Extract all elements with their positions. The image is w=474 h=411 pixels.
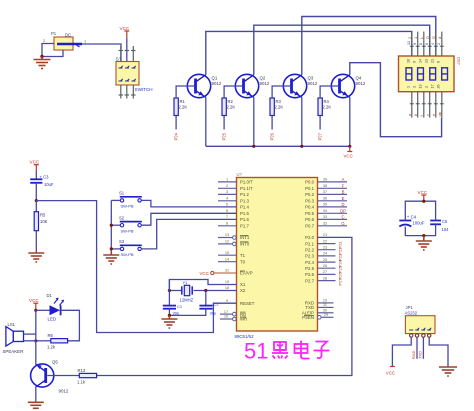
svg-text:R5: R5 [40,213,46,218]
switch S? body [116,62,139,86]
junction dot VCC rail [422,200,425,203]
junction dot common rail S2 [110,224,113,227]
MCU right pin names P0 [305,180,314,229]
svg-text:21: 21 [431,59,435,63]
svg-text:P1.5: P1.5 [240,211,249,216]
svg-text:P1.1/T: P1.1/T [240,186,253,191]
wire R1 to Q1 base [176,86,194,98]
svg-text:G: G [341,221,344,226]
wire Q4 emitter to VCC bus [349,97,351,146]
svg-text:P1.2: P1.2 [240,192,249,197]
svg-text:T0: T0 [240,259,246,264]
svg-text:P2.0: P2.0 [305,235,314,240]
display digit 1 [406,68,412,80]
title 51 black electronics [244,339,330,364]
resistor R6 [47,333,68,350]
svg-text:R6: R6 [48,333,54,338]
display inner top pin name row [407,59,441,63]
svg-text:5: 5 [226,203,228,207]
svg-text:LED: LED [48,317,57,322]
wire X2 to crystal [194,290,237,292]
MCU left pin WR bubble [220,317,236,321]
svg-text:P0.6: P0.6 [305,217,314,222]
svg-text:D: D [341,202,344,207]
MCU left pin RD bubble [220,312,236,316]
wire R3 bottom to net label [271,116,273,130]
MCU pin PSEN bubble [318,316,334,320]
wire VCC node to LED anode [36,309,50,311]
svg-text:C: C [341,214,344,219]
svg-text:P23: P23 [338,253,343,261]
wire Q1 collector to display pin1 [206,31,412,74]
MCU right pin stubs P2.1-P2.7 [318,244,336,281]
wire Q2 emitter to VCC bus [253,97,255,146]
svg-text:D: D [425,36,430,39]
junction dot reset node [35,199,38,202]
svg-text:SWITCH: SWITCH [135,87,153,92]
display digit 2 [418,68,424,80]
switch S? bottom pins [119,85,136,99]
svg-text:P0.1: P0.1 [305,186,314,191]
svg-text:12MHZ: 12MHZ [180,298,194,303]
svg-text:P2.1: P2.1 [305,241,314,246]
svg-text:G: G [431,36,436,39]
wire Q4 collector to display bottom pin6 [350,63,442,137]
svg-text:9: 9 [412,61,416,63]
MCU right pin numbers P2 [323,233,327,280]
junction dot bus Q3 [300,145,303,148]
crystal Y1 12MHZ [180,280,194,303]
svg-text:P1.3: P1.3 [240,199,249,204]
MCU left pin stubs P1.0-P1.7 [218,182,237,262]
transistor Q2 9012 [235,74,270,97]
junction dot speaker node [34,339,37,342]
junction dot ground rail [422,234,425,237]
svg-text:23: 23 [424,59,428,63]
speaker LS1 [3,322,24,354]
wire Q2 collector to display pin4 [254,25,430,75]
svg-text:Q3: Q3 [308,76,314,81]
svg-text:SW-PB: SW-PB [121,204,134,209]
MCU left pin INT1 bubble [218,236,236,240]
svg-text:D1: D1 [47,293,53,298]
svg-text:S?: S? [116,56,122,62]
svg-text:c: c [425,114,430,116]
svg-text:4: 4 [431,43,435,45]
power VCC above switch [120,26,130,38]
wire JP1 pin3 TXD [422,337,424,359]
svg-text:18: 18 [225,286,229,290]
power VCC speaker circuit [29,298,39,310]
wire buttons common rail [111,200,120,252]
svg-text:P27: P27 [317,132,322,140]
wire VCC to switch middle pin [126,38,128,62]
junction dot common rail S3 [110,247,113,250]
svg-text:9: 9 [413,43,417,45]
power VCC filter block [418,190,428,201]
svg-text:A: A [342,177,345,182]
ground symbol below R5 [28,253,44,262]
svg-text:P1.7: P1.7 [240,224,249,229]
ground symbol filter block [416,236,432,250]
svg-text:S2: S2 [119,215,125,220]
svg-text:R4: R4 [324,99,330,104]
resistor R1 2.2K [174,98,187,116]
svg-text:RESET: RESET [240,301,255,306]
transistor Q4 9012 [331,74,366,97]
svg-text:dp: dp [437,111,442,116]
MCU bottom right pin stubs RXD TXD ALE [318,303,334,313]
svg-text:30p: 30p [210,311,217,316]
svg-text:P25: P25 [338,265,343,273]
wire R2 bottom to net label [223,116,225,130]
svg-text:35: 35 [323,203,327,207]
svg-text:VCC: VCC [29,298,39,303]
svg-text:32: 32 [323,222,327,226]
svg-text:1.2k: 1.2k [47,345,56,350]
svg-text:P27: P27 [338,278,343,286]
svg-text:Q1: Q1 [212,76,218,81]
svg-text:2: 2 [437,43,441,45]
svg-text:16: 16 [407,59,411,63]
wire S1 to P1.4 [141,200,236,207]
wire LED cathode to R6 [61,310,80,341]
svg-text:26: 26 [323,264,327,268]
resistor R13 [77,368,97,385]
MCU pin name overlines [240,236,249,318]
svg-text:VCC: VCC [386,371,395,376]
svg-text:6: 6 [437,61,441,63]
svg-text:6: 6 [226,209,228,213]
wire VCC to C3 [35,171,37,179]
svg-text:+ C4: + C4 [407,214,417,219]
wire R3 to Q3 base [272,86,290,98]
svg-text:Q4: Q4 [356,76,362,81]
svg-text:25: 25 [323,258,327,262]
svg-text:P0.2: P0.2 [305,192,314,197]
wire Q3 emitter to VCC bus [301,97,303,146]
transistor Q1 9012 [187,74,222,97]
svg-text:13: 13 [419,85,423,89]
svg-text:X2: X2 [240,288,246,293]
junction dot crystal right [204,289,207,292]
svg-text:S1: S1 [119,191,125,196]
wire C1 C2 ground rail [169,309,205,316]
capacitor C1 30p [163,304,183,316]
svg-text:P1.6: P1.6 [240,217,249,222]
hanzi hei [272,342,288,359]
wire VCC node down to Q5 collector [35,310,37,364]
wire Q3 collector to display pin5 [302,17,436,75]
wire R2 to Q2 base [224,86,242,98]
svg-text:14: 14 [225,257,229,261]
svg-text:U?: U? [237,172,243,177]
svg-text:23: 23 [323,245,327,249]
svg-text:P21: P21 [338,241,343,249]
svg-text:P0.5: P0.5 [305,211,314,216]
ground symbol below JP1 pin4 [439,367,457,376]
svg-text:9012: 9012 [260,81,270,86]
svg-text:12: 12 [225,240,229,244]
svg-text:24: 24 [323,252,327,256]
svg-text:JP1: JP1 [406,305,414,310]
MCU U? 89C51/52 body [237,178,318,332]
wire R4 bottom to net label [319,116,321,130]
wire JP1 pin4 to ground [429,337,448,366]
display DS1 4-digit 7-segment body [399,56,455,92]
display bottom pins [412,92,442,118]
wire R6 to speaker node [36,340,51,342]
svg-text:P2.3: P2.3 [305,254,314,259]
svg-text:2.2K: 2.2K [179,105,188,110]
svg-text:P24: P24 [173,132,178,140]
hanzi zi [314,342,330,359]
pushbutton S1 SW-PB [119,191,142,209]
svg-text:DS?: DS? [457,57,462,66]
svg-text:DP: DP [340,208,346,213]
power VCC at EA/VP [200,271,214,276]
svg-text:36: 36 [323,197,327,201]
svg-text:P0.4: P0.4 [305,205,314,210]
ground symbol below Q5 [28,402,44,408]
capacitor C4 100uF [399,214,425,226]
svg-text:LS1: LS1 [8,322,16,327]
svg-text:9012: 9012 [356,81,366,86]
svg-text:21: 21 [323,233,327,237]
wire S2 to P1.5 [141,213,236,225]
MCU bottom right pin names [302,301,314,320]
svg-text:EA/VP: EA/VP [240,271,253,276]
svg-text:6: 6 [425,43,429,45]
wire R4 to Q4 base [320,86,338,98]
wire crystal right node down to C2 [205,291,207,306]
svg-text:P2.6: P2.6 [305,272,314,277]
svg-text:P25: P25 [221,132,226,140]
svg-text:SPEAKER: SPEAKER [3,349,24,354]
MCU left pin numbers [224,178,229,319]
svg-text:10: 10 [323,299,327,303]
svg-text:B: B [342,189,345,194]
display digit 4 [442,68,448,80]
svg-text:C5: C5 [442,219,448,224]
pushbutton S2 SW-PB [119,215,142,233]
svg-text:14: 14 [419,59,423,63]
display top pins [412,32,442,56]
svg-text:4: 4 [226,197,228,201]
svg-text:9012: 9012 [59,389,69,394]
wire reset node to RESET pin [36,201,236,333]
svg-text:2.2K: 2.2K [227,105,236,110]
wire reset node to R5 [35,201,37,212]
svg-text:P2.7: P2.7 [305,278,314,283]
svg-text:17: 17 [224,310,228,314]
svg-text:17: 17 [431,85,435,89]
display top pin tick marks [410,45,444,47]
junction dot bus VCC tap [348,145,351,148]
resistor R2 2.2K [222,98,235,116]
svg-text:9012: 9012 [212,81,222,86]
wire X1 loop [169,280,236,291]
MCU left pin INT0 bubble [218,242,236,246]
wire R1 bottom to net label [175,116,177,130]
power VCC below JP1 pin1 [386,367,395,376]
svg-text:9: 9 [226,299,228,303]
svg-text:P2.4: P2.4 [305,260,314,265]
power VCC reset circuit [30,160,40,172]
svg-text:+ C3: + C3 [40,175,50,180]
svg-text:R2: R2 [228,99,234,104]
overline PSEN [304,314,314,316]
MCU right pin stubs P0.0-P0.7 [318,182,348,226]
svg-text:WR: WR [240,317,247,322]
JP1 pin circles [410,334,431,337]
segment net labels A-G [340,177,346,226]
svg-text:P1.4: P1.4 [240,205,249,210]
svg-text:1: 1 [407,86,411,88]
LED D1 [47,293,65,322]
wire filter cap bottom rail [405,224,435,235]
svg-text:E: E [342,196,345,201]
svg-text:7: 7 [226,215,228,219]
resistor R3 2.2K [270,98,283,116]
svg-text:10K: 10K [40,219,48,224]
ground symbol crystal [161,315,177,328]
svg-text:12: 12 [407,41,411,45]
switch S? top pins [119,46,136,62]
wire P1 pin2 to ground [42,44,54,57]
wire Q1 emitter to VCC bus [205,97,207,146]
wire Q5 base to R13 [47,375,79,377]
wire P2.0 to beeper transistor R13 [97,237,352,375]
svg-text:2.2K: 2.2K [275,105,284,110]
wire C3 to reset node [35,183,37,201]
svg-text:VCC: VCC [30,160,40,165]
svg-text:100uF: 100uF [413,220,425,225]
svg-text:R3: R3 [276,99,282,104]
switch inner contact glyphs [119,66,136,81]
junction dot C1 ground [168,314,171,317]
svg-text:TXD: TXD [418,351,423,359]
svg-text:P0.3: P0.3 [305,199,314,204]
svg-text:2: 2 [226,184,228,188]
wire VCC to EA/VP pin 31 [214,272,237,274]
wire P1 pin1 to switch [82,44,121,62]
svg-text:28: 28 [323,276,327,280]
connector JP1 AS232 body [405,305,436,334]
hanzi dian [295,341,310,359]
svg-text:VCC: VCC [418,190,428,195]
svg-text:16: 16 [224,315,228,319]
svg-text:AS232: AS232 [405,311,418,316]
svg-text:37: 37 [323,190,327,194]
MCU right pin numbers P0 [323,178,327,226]
display bottom pin tick marks [410,103,444,105]
svg-text:29: 29 [324,313,328,317]
MCU left pin names [240,180,255,322]
wire filter cap loop [405,201,435,220]
svg-text:9012: 9012 [308,81,318,86]
wire S3 to P1.6 [141,219,236,249]
svg-text:22: 22 [323,239,327,243]
svg-text:1.1k: 1.1k [77,380,86,385]
display digit 3 [430,68,436,80]
transistor Q5 9012 [31,360,69,394]
svg-text:38: 38 [323,184,327,188]
wire emitter VCC bus [206,145,350,147]
svg-text:Q5: Q5 [52,360,58,365]
capacitor C5 104 [430,219,449,232]
svg-text:P2.5: P2.5 [305,266,314,271]
ground symbol below buttons [103,252,119,264]
svg-text:P1: P1 [51,31,57,36]
MCU right pin names P2 [305,235,314,283]
svg-text:3: 3 [412,86,416,88]
connector P1 DC jack [54,37,82,50]
wire speaker terminals [24,334,36,341]
ground symbol below P1 [34,57,51,69]
svg-text:F: F [342,183,345,188]
svg-text:C2: C2 [214,302,220,307]
wire R5 to ground [35,231,37,253]
svg-text:104: 104 [442,227,450,232]
svg-text:SW-PB: SW-PB [121,252,134,257]
junction dot at ground node [40,55,43,58]
svg-text:3: 3 [226,190,228,194]
svg-text:VCC: VCC [120,26,130,31]
svg-text:2.2K: 2.2K [323,105,332,110]
svg-text:VCC: VCC [200,271,209,276]
wire crystal left [169,290,181,292]
svg-text:34: 34 [323,209,327,213]
svg-text:2: 2 [424,86,428,88]
display top pin net labels [407,36,442,39]
svg-text:P26: P26 [269,132,274,140]
svg-text:T1: T1 [240,253,246,258]
svg-text:R13: R13 [78,368,86,373]
rotated net labels P21-P27 [338,241,343,286]
svg-text:Q2: Q2 [260,76,266,81]
svg-text:SW-PB: SW-PB [121,228,134,233]
svg-text:26: 26 [437,85,441,89]
svg-text:DC: DC [65,33,71,38]
svg-text:27: 27 [323,270,327,274]
wire JP1 pin1 to VCC [392,337,411,366]
display inner bottom pin name row [407,85,441,89]
display bottom pin net labels [407,111,442,116]
svg-text:VCC: VCC [344,154,353,159]
svg-text:P0.7: P0.7 [305,224,314,229]
svg-text:39: 39 [323,178,327,182]
svg-text:INT0: INT0 [240,242,250,247]
MCU bottom right pin numbers [323,299,328,318]
svg-text:10uF: 10uF [44,182,54,187]
svg-text:30: 30 [323,309,327,313]
svg-text:S3: S3 [119,239,125,244]
svg-text:15: 15 [225,251,229,255]
junction dot bus Q2 [252,145,255,148]
svg-text:11: 11 [323,303,327,307]
svg-text:R1: R1 [180,99,186,104]
svg-text:33: 33 [323,215,327,219]
power VCC below emitter bus [344,146,353,158]
svg-text:X1: X1 [240,282,246,287]
junction dot VCC LED node [34,309,37,312]
svg-text:RXD: RXD [411,350,416,359]
svg-text:19: 19 [225,280,229,284]
svg-text:Y1: Y1 [183,280,189,285]
wire crystal left node down to C1 [168,280,170,306]
svg-text:31: 31 [225,269,229,273]
